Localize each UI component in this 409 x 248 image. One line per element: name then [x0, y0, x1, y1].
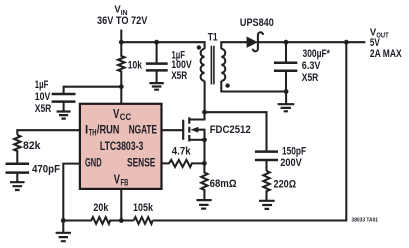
node VCC junction [119, 84, 124, 89]
svg-text:38033 TA01: 38033 TA01 [352, 218, 379, 224]
svg-text:150pF: 150pF [282, 146, 307, 158]
svg-text:FB: FB [121, 178, 129, 188]
T1 secondary winding [221, 49, 225, 81]
svg-text:V: V [114, 5, 120, 16]
resistor 68mOhm [201, 163, 207, 200]
ground (output) [278, 92, 295, 112]
wire secondary top to diode [221, 42, 247, 49]
T1 primary winding [201, 49, 205, 81]
wire secondary bottom rail [221, 81, 286, 92]
svg-text:68mΩ: 68mΩ [210, 178, 237, 190]
svg-text:GND: GND [85, 156, 102, 170]
svg-text:200V: 200V [280, 157, 301, 169]
node VIN label [97, 5, 147, 27]
svg-text:1µF: 1µF [35, 79, 49, 91]
svg-text:470pF: 470pF [32, 164, 60, 176]
svg-text:LTC3803-3: LTC3803-3 [100, 139, 144, 153]
wire VIN stem [120, 30, 122, 43]
capacitor 300uF 6.3V X5R [274, 42, 331, 91]
svg-text:2A MAX: 2A MAX [370, 48, 402, 60]
capacitor 1uF 10V X5R [35, 79, 76, 115]
svg-text:T1: T1 [208, 31, 218, 43]
node GND rail junction [61, 218, 66, 223]
wire ITH/RUN pin [17, 130, 80, 135]
transformer T1 [197, 31, 230, 87]
resistor 220 ohm [263, 171, 269, 201]
svg-text:6.3V: 6.3V [302, 60, 321, 72]
capacitor 1uF 100V X5R [146, 42, 192, 83]
Q1 body arrow [197, 130, 205, 140]
T1 core [211, 46, 214, 85]
svg-text:/RUN: /RUN [97, 123, 120, 137]
svg-text:220Ω: 220Ω [274, 178, 297, 190]
svg-text:82k: 82k [23, 140, 41, 152]
Q1 source lead [189, 139, 204, 141]
wire top rail to transformer [121, 42, 204, 49]
resistor 82k [14, 135, 20, 164]
svg-text:CC: CC [120, 112, 132, 122]
node drain junction [202, 110, 207, 115]
wire VCC to bypass cap [64, 87, 122, 94]
diode UPS840 [240, 17, 274, 51]
wire NGATE pin [162, 129, 184, 131]
svg-text:TH: TH [89, 128, 97, 138]
svg-text:4.7k: 4.7k [172, 146, 191, 158]
svg-text:20k: 20k [93, 202, 108, 214]
ground (1uF 100V cap) [149, 83, 163, 90]
transistor Q1 FDC2512 [183, 112, 251, 142]
node VFB junction [119, 218, 124, 223]
svg-text:300µF*: 300µF* [303, 48, 331, 60]
node 100V cap rail junction [154, 40, 159, 45]
svg-text:105k: 105k [133, 202, 153, 214]
resistor 10k [118, 42, 125, 104]
svg-text:X5R: X5R [171, 70, 187, 82]
svg-text:36V TO 72V: 36V TO 72V [97, 15, 147, 27]
resistor 20k [63, 217, 133, 224]
node VOUT junction [344, 40, 349, 45]
T1 primary phase dot [197, 45, 201, 49]
ground (220 ohm) [259, 201, 275, 209]
capacitor 150pF 200V [255, 146, 307, 171]
svg-text:NGATE: NGATE [129, 123, 157, 137]
svg-text:10V: 10V [35, 91, 51, 103]
svg-text:UPS840: UPS840 [240, 17, 274, 29]
T1 secondary phase dot [225, 83, 229, 87]
svg-text:V: V [114, 172, 120, 187]
node VOUT label [370, 27, 402, 59]
svg-text:V: V [113, 106, 119, 121]
capacitor 470pF [6, 164, 61, 182]
node output cap junction [284, 40, 289, 45]
wire source to sense node [203, 140, 205, 164]
wire secondary rail to VOUT [257, 41, 366, 43]
node secondary ground junction [284, 89, 289, 94]
node Q1 source junction [202, 137, 207, 142]
node VIN rail junction [119, 40, 124, 45]
ground (GND pin) [56, 221, 71, 242]
wire snubber branch [205, 112, 267, 151]
Q1 drain lead [189, 112, 204, 119]
resistor 4.7k [162, 160, 205, 167]
wire VOUT feedback down right side and bottom [153, 42, 347, 220]
node sense junction [202, 161, 207, 166]
Q1 channel dashes [188, 117, 190, 141]
svg-text:SENSE: SENSE [127, 156, 155, 170]
ground (68mOhm) [197, 200, 212, 209]
svg-text:10k: 10k [128, 60, 142, 72]
resistor 105k [134, 217, 153, 224]
svg-text:X5R: X5R [302, 72, 319, 84]
ground (1uF 10V cap) [57, 112, 71, 119]
svg-text:X5R: X5R [35, 103, 52, 115]
wire primary bottom to drain node [204, 81, 206, 112]
Q1 gate bar [182, 120, 184, 140]
ground (470pF) [10, 182, 25, 190]
wire GND pin [63, 164, 80, 221]
IC U1 LTC3803-3 [80, 104, 162, 189]
wire VFB pin [120, 189, 122, 221]
svg-text:FDC2512: FDC2512 [210, 124, 251, 136]
